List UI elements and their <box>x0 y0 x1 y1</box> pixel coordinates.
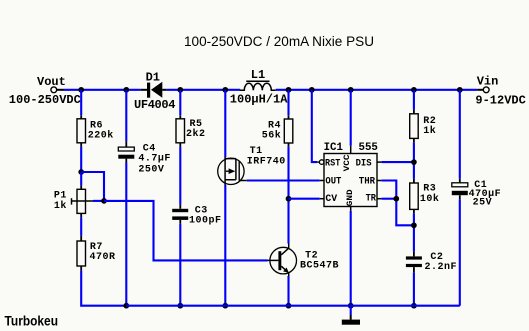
svg-text:VCC: VCC <box>343 154 352 171</box>
svg-text:CV: CV <box>325 193 338 205</box>
wire: R4 branch top <box>287 90 289 115</box>
svg-text:470R: 470R <box>90 252 116 263</box>
resistor R3 <box>410 179 419 214</box>
svg-text:D1: D1 <box>146 70 160 84</box>
svg-text:RST: RST <box>325 158 340 170</box>
wire: C2 bottom to ground rail <box>413 272 415 305</box>
svg-text:25V: 25V <box>473 198 493 209</box>
wire: C4 bottom to ground rail <box>125 163 127 306</box>
svg-text:9-12VDC: 9-12VDC <box>475 93 525 107</box>
wire: P1 bottom to R7 <box>80 217 82 236</box>
svg-text:220k: 220k <box>88 129 114 141</box>
wire: C1 branch top <box>459 90 461 179</box>
svg-text:T1: T1 <box>250 146 263 157</box>
node: T1 source ground junction <box>222 303 228 309</box>
wire: top rail Vout terminal to D1 anode <box>57 89 141 91</box>
wire: T1 source to ground rail <box>224 185 226 306</box>
wire: GND pin to ground rail <box>350 207 352 306</box>
wire: wiper junction to T2 base <box>104 201 268 261</box>
capacitor C2 <box>406 252 422 273</box>
pin RST bubble <box>317 160 324 165</box>
wire: VCC pin to top rail <box>350 90 352 154</box>
node: C2 ground junction <box>411 303 417 309</box>
svg-text:Vin: Vin <box>477 75 499 89</box>
transistor T1 MOSFET <box>218 157 247 185</box>
wire: CV junction to 555 CV pin <box>289 198 325 200</box>
wire: R7 bottom to ground rail <box>81 271 126 306</box>
potentiometer P1 <box>72 186 94 218</box>
wire: THR pin to R3 bottom <box>377 181 414 226</box>
svg-text:BC547B: BC547B <box>300 260 339 271</box>
svg-text:2k2: 2k2 <box>186 128 206 140</box>
svg-text:L1: L1 <box>251 68 265 82</box>
wire: T1 gate to 555 OUT <box>247 179 324 181</box>
inductor L1 <box>240 81 276 90</box>
svg-text:THR: THR <box>359 176 376 188</box>
wire: R2 branch top <box>413 90 415 110</box>
wire: P1 top <box>80 172 82 186</box>
svg-text:100pF: 100pF <box>189 216 222 227</box>
svg-text:UF4004: UF4004 <box>134 98 175 112</box>
svg-text:IRF740: IRF740 <box>247 157 286 168</box>
node: C3 ground junction <box>177 303 183 309</box>
node: wiper junction <box>101 198 107 204</box>
wire: node to wiper joint <box>81 172 104 201</box>
wire: top rail L1 to Vin terminal <box>276 89 484 91</box>
terminal Vout <box>51 87 57 93</box>
node: GND ground junction <box>348 303 354 309</box>
node: R6/P1/wiper junction <box>78 169 84 175</box>
svg-text:100-250VDC / 20mA Nixie PSU: 100-250VDC / 20mA Nixie PSU <box>184 34 374 50</box>
wire: wiper to junction <box>93 200 104 202</box>
wire: RST connection to top rail <box>312 90 317 162</box>
svg-text:10k: 10k <box>420 193 440 205</box>
wire: T1 drain from top rail <box>224 90 226 157</box>
wire: DIS pin to R2/R3 junction <box>377 161 414 163</box>
node: T2 emitter ground junction <box>286 303 292 309</box>
ground <box>342 320 360 325</box>
wire: R6 branch top <box>80 90 82 115</box>
terminal Vin <box>483 87 489 93</box>
svg-text:OUT: OUT <box>325 175 341 187</box>
resistor R4 <box>284 115 293 146</box>
capacitor C4 <box>118 141 134 162</box>
svg-text:GND: GND <box>346 189 355 206</box>
svg-text:100µH/1A: 100µH/1A <box>230 93 288 107</box>
resistor R2 <box>410 110 419 143</box>
capacitor C1 <box>452 179 468 200</box>
svg-text:IC1: IC1 <box>324 142 344 154</box>
wire: R6 bottom to P1 node <box>80 147 82 172</box>
capacitor C3 <box>172 205 188 224</box>
wire: T2 emitter to ground rail <box>287 276 289 306</box>
transistor T2 BJT <box>268 244 297 277</box>
svg-text:1k: 1k <box>423 125 436 137</box>
wire: ground stub <box>350 306 352 320</box>
node: THR/R3/C2 junction <box>411 222 417 228</box>
wire: C4 branch top <box>125 90 127 142</box>
wire: R2 bottom to DIS junction <box>413 142 415 179</box>
wire: top rail D1 to L1 <box>167 89 240 91</box>
wire: R3 bottom to C2 <box>413 213 415 251</box>
svg-text:2.2nF: 2.2nF <box>425 262 458 273</box>
svg-text:Turbokeu: Turbokeu <box>5 313 59 329</box>
node: CV junction <box>286 196 292 202</box>
node: TR/THR junction <box>393 196 399 202</box>
wire: R4 bottom to T2 collector <box>287 146 289 243</box>
diode D1 <box>141 82 167 98</box>
wire: TR pin to THR wire <box>377 198 396 200</box>
svg-text:TR: TR <box>366 193 377 205</box>
svg-text:555: 555 <box>359 142 379 154</box>
resistor R6 <box>77 115 86 146</box>
ic IC1 555 timer box <box>324 154 377 207</box>
resistor R5 <box>176 115 185 146</box>
wire: ground rail <box>126 305 460 307</box>
svg-text:100-250VDC: 100-250VDC <box>9 93 81 107</box>
wire: R5 branch top <box>179 90 181 115</box>
svg-text:DIS: DIS <box>356 158 372 170</box>
svg-text:250V: 250V <box>138 165 164 176</box>
wire: C3 bottom to ground rail <box>179 224 181 306</box>
wire: C1 bottom to ground rail <box>459 199 461 305</box>
wire: R5 bottom to C3 <box>179 147 181 205</box>
svg-text:56k: 56k <box>262 129 282 141</box>
svg-text:4.7µF: 4.7µF <box>138 154 171 165</box>
svg-text:1k: 1k <box>54 200 67 212</box>
node: top rail junction dots <box>78 87 462 93</box>
node: DIS junction <box>411 159 417 165</box>
resistor R7 <box>77 236 86 271</box>
node: C4 ground junction <box>123 303 129 309</box>
svg-text:Vout: Vout <box>37 75 66 89</box>
